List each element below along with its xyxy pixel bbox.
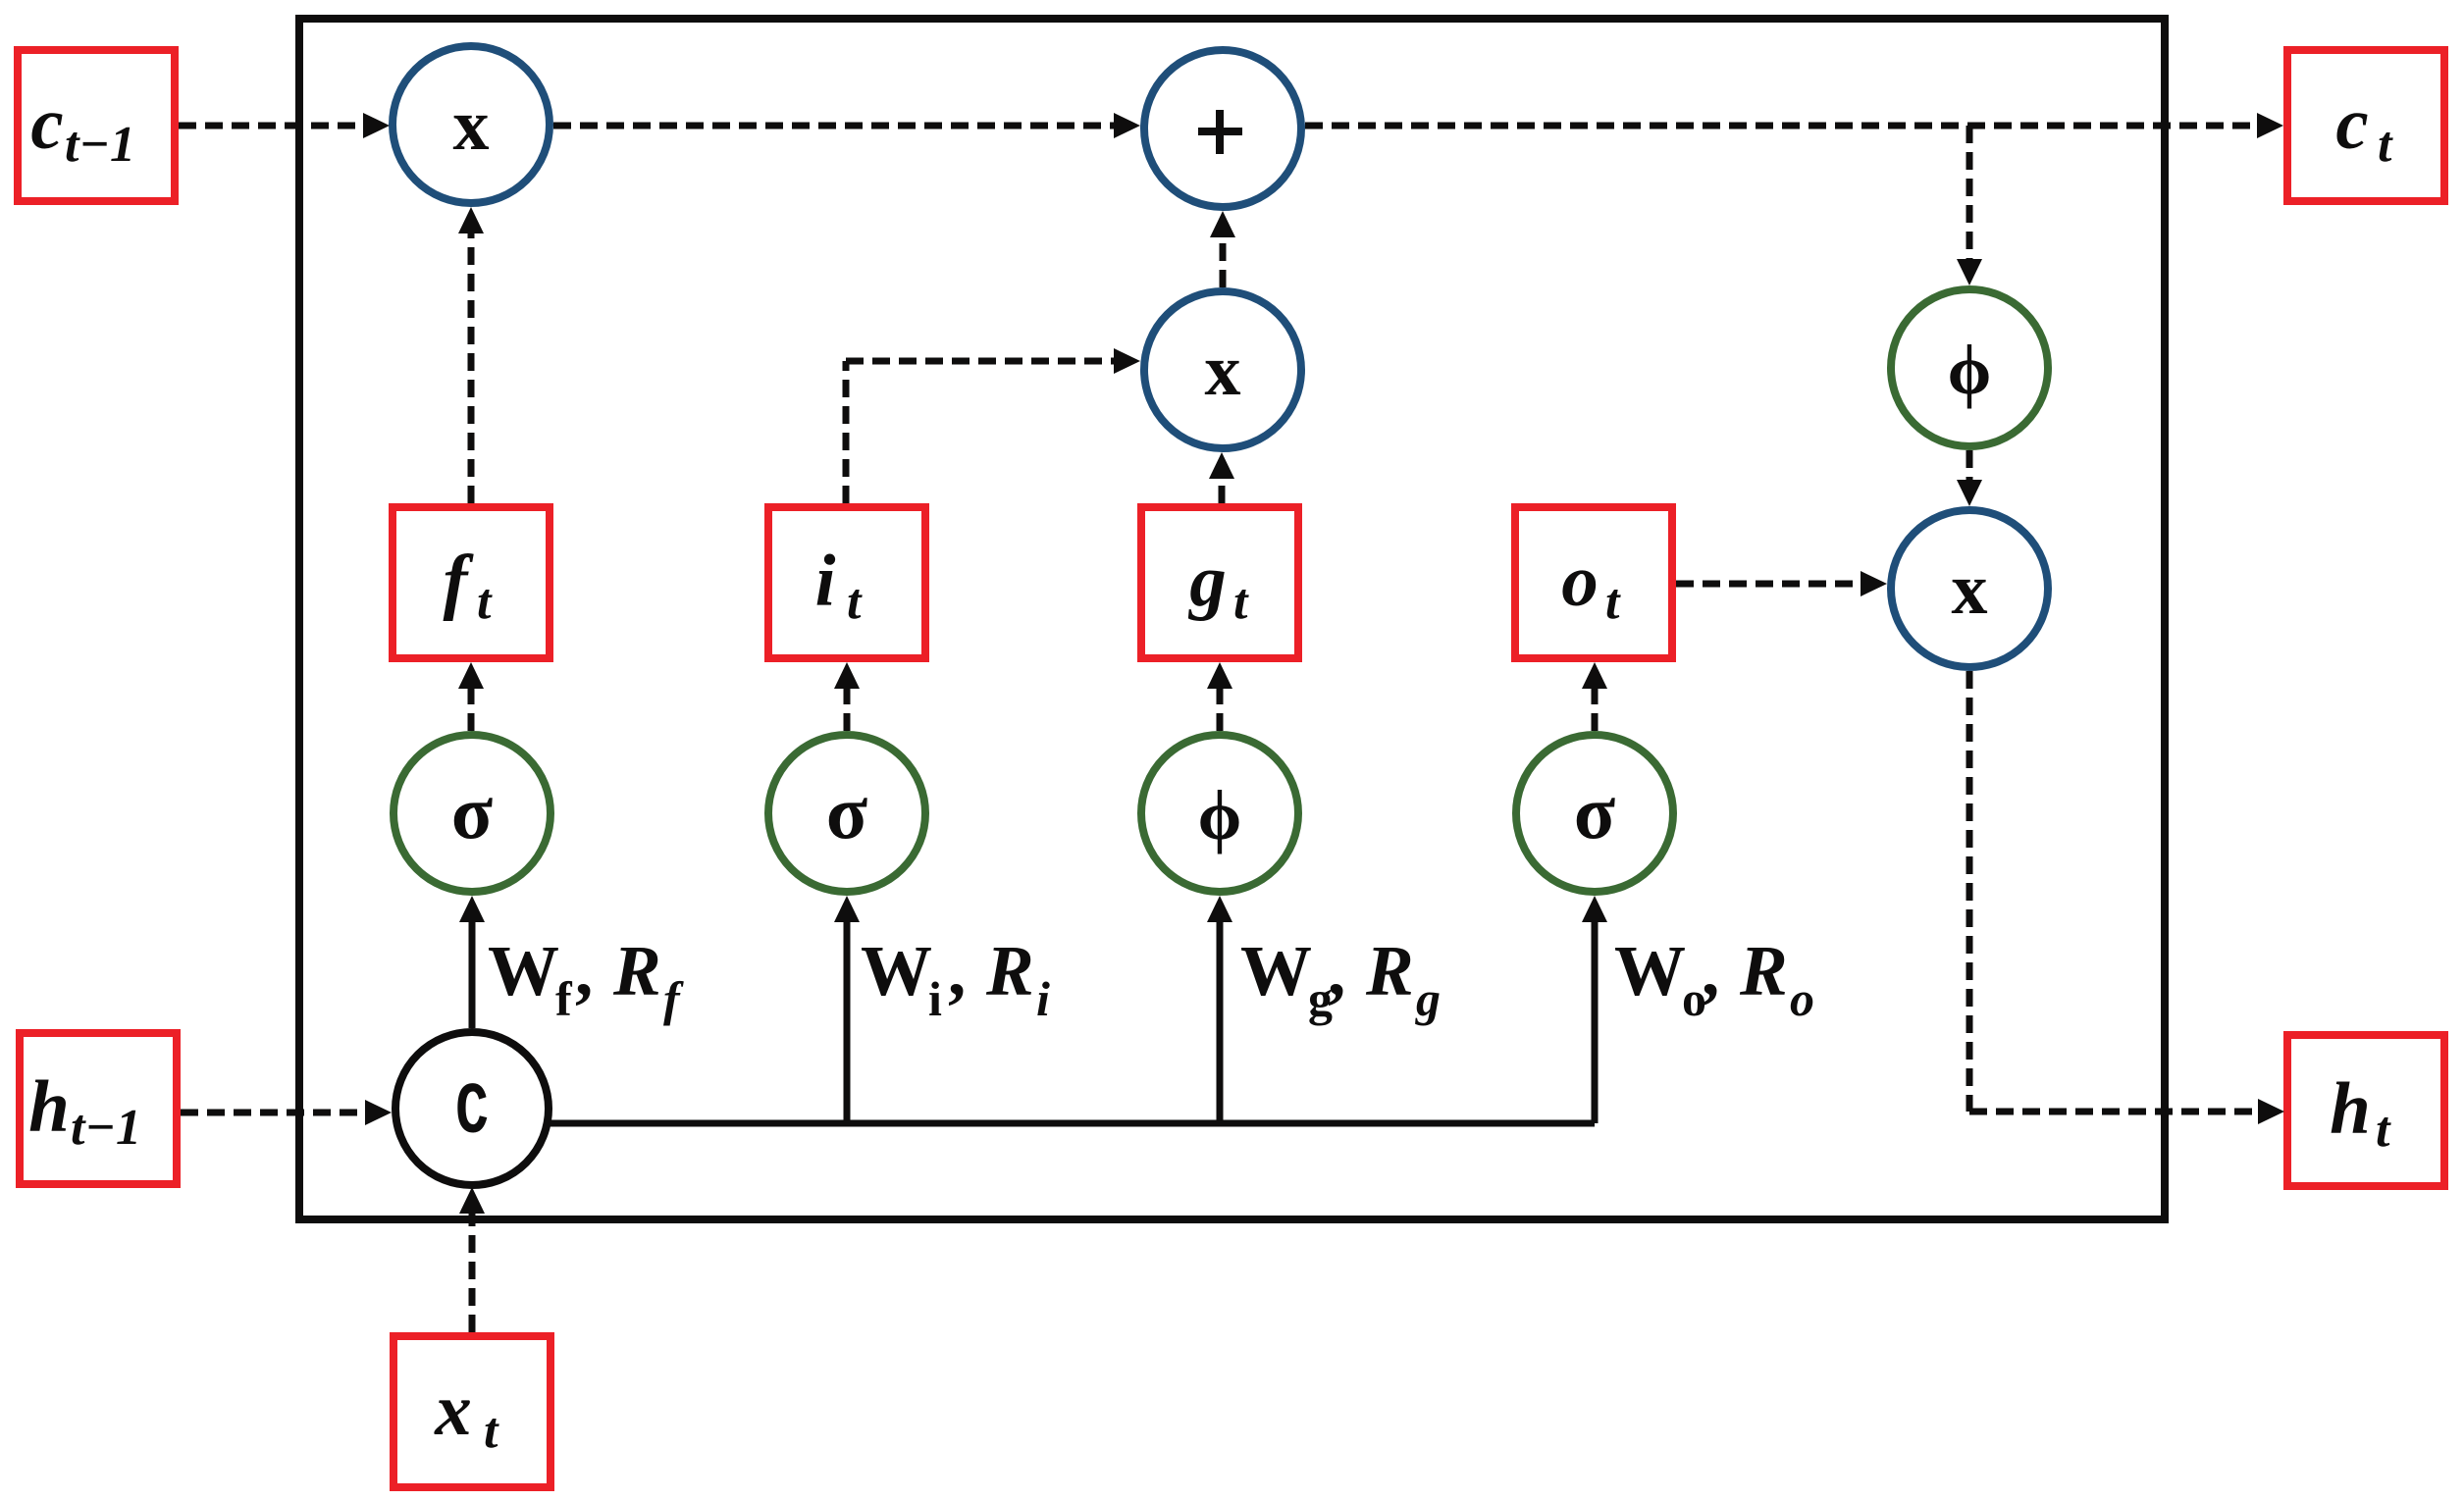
tanh phi circle (candidate)	[1141, 735, 1298, 892]
wire sigmoid (input) up to i_t	[834, 662, 860, 731]
concat node C	[395, 1032, 549, 1185]
svg-text:,: ,	[1702, 931, 1719, 1010]
output gate box o_t	[1515, 507, 1672, 658]
LSTM cell boundary box	[299, 19, 2165, 1219]
wire top-left multiply to add node	[553, 113, 1140, 138]
wire bus riser to sigmoid (input)	[834, 896, 860, 1123]
output box h_t	[2287, 1035, 2444, 1186]
forget gate box f_t	[393, 507, 550, 658]
input box x_t	[393, 1336, 550, 1487]
label W_f, R_f	[488, 931, 684, 1026]
svg-text:c: c	[2335, 83, 2368, 165]
sigmoid circle (forget gate)	[393, 735, 550, 892]
svg-text:ϕ: ϕ	[1948, 331, 1992, 409]
multiply node x (top-left)	[393, 46, 550, 203]
svg-text:x: x	[1205, 331, 1241, 411]
input box c_(t-1)	[18, 50, 175, 201]
svg-text:σ: σ	[451, 769, 493, 854]
svg-text:f: f	[555, 971, 573, 1026]
wire c_(t-1) to top-left multiply	[179, 113, 390, 138]
wire sigmoid (output) up to o_t	[1582, 662, 1607, 731]
output box c_t	[2287, 50, 2444, 201]
svg-text:g: g	[1415, 971, 1441, 1026]
svg-text:t−1: t−1	[71, 1100, 141, 1156]
svg-text:t: t	[2378, 117, 2393, 173]
svg-text:t: t	[1233, 574, 1249, 630]
wire i_t up and right to centre multiply	[846, 348, 1140, 503]
input gate box i_t	[768, 507, 925, 658]
wire concat bus horizontal	[547, 1120, 1595, 1127]
svg-text:x: x	[453, 85, 490, 166]
svg-text:t: t	[477, 574, 493, 630]
svg-text:t−1: t−1	[65, 117, 135, 173]
multiply node x (right)	[1891, 510, 2048, 667]
tanh phi circle (cell output)	[1891, 289, 2048, 446]
svg-text:t: t	[847, 574, 863, 630]
svg-text:t: t	[2376, 1102, 2391, 1158]
svg-text:R: R	[612, 931, 661, 1010]
wire centre multiply up to add node	[1210, 211, 1235, 287]
svg-text:,: ,	[1328, 931, 1345, 1010]
add node + (top-centre)	[1144, 50, 1301, 207]
svg-text:t: t	[1605, 574, 1621, 630]
svg-text:R: R	[1365, 931, 1414, 1010]
svg-text:R: R	[1739, 931, 1788, 1010]
svg-text:h: h	[28, 1066, 70, 1148]
plus sign of add node	[1198, 110, 1242, 154]
svg-text:t: t	[484, 1403, 499, 1459]
svg-text:W: W	[861, 931, 932, 1010]
svg-text:,: ,	[575, 931, 593, 1010]
wire right multiply down then right to h_t	[1969, 671, 2284, 1124]
svg-text:i: i	[928, 971, 942, 1026]
svg-text:g: g	[1187, 541, 1227, 622]
svg-text:x: x	[1952, 549, 1988, 630]
wire bus riser to phi (candidate)	[1207, 896, 1232, 1123]
svg-text:h: h	[2330, 1068, 2371, 1150]
sigmoid circle (input gate)	[768, 735, 925, 892]
label W_g, R_g	[1240, 931, 1441, 1026]
label W_o, R_o	[1614, 931, 1814, 1026]
svg-text:i: i	[1036, 971, 1050, 1026]
svg-text:σ: σ	[1574, 769, 1615, 854]
input box h_(t-1)	[20, 1033, 177, 1184]
svg-text:ϕ: ϕ	[1198, 776, 1242, 854]
candidate box g_t	[1141, 507, 1298, 658]
label W_i, R_i	[861, 931, 1050, 1026]
svg-text:,: ,	[948, 931, 966, 1010]
wire f_t up to top-left multiply	[458, 207, 484, 503]
wire phi to right multiply	[1957, 450, 1982, 506]
wire branch down to phi (cell output)	[1957, 126, 1982, 285]
wire bus riser to sigmoid (output)	[1582, 896, 1607, 1123]
svg-text:i: i	[815, 541, 836, 622]
sigmoid circle (output gate)	[1516, 735, 1673, 892]
svg-text:x: x	[434, 1370, 472, 1451]
svg-text:σ: σ	[826, 769, 867, 854]
svg-text:R: R	[985, 931, 1034, 1010]
wire x_t up to concat node	[459, 1187, 485, 1332]
multiply node x (centre)	[1144, 291, 1301, 448]
svg-text:W: W	[1240, 931, 1312, 1010]
svg-text:c: c	[30, 83, 63, 165]
svg-text:o: o	[1790, 971, 1814, 1026]
wire add node to c_t (with branch junction)	[1305, 113, 2283, 138]
svg-text:C: C	[455, 1071, 489, 1154]
svg-text:o: o	[1561, 541, 1599, 622]
wire h_(t-1) to concat node	[181, 1100, 392, 1125]
wire o_t right to right multiply	[1676, 571, 1887, 596]
svg-text:W: W	[1614, 931, 1686, 1010]
wire concat node up to sigmoid (forget)	[459, 896, 485, 1028]
wire phi (candidate) up to g_t	[1207, 662, 1232, 731]
wire g_t up to centre multiply	[1209, 452, 1234, 503]
svg-text:W: W	[488, 931, 559, 1010]
wire sigmoid (forget) up to f_t	[458, 662, 484, 731]
